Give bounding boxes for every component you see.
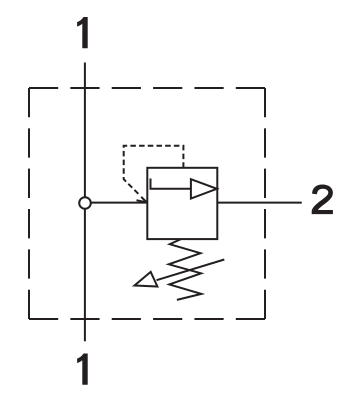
flow arrowhead triangle: [191, 179, 217, 198]
valve body U1: square envelope: [147, 168, 217, 239]
wire: node to valve body: [90, 202, 147, 204]
wire: valve to port 2: [217, 202, 301, 204]
wire: port 1 vertical line (bottom segment): [84, 208, 86, 341]
adjustment arrowhead triangle: [135, 272, 158, 287]
port label 2: [312, 185, 333, 215]
node: junction circle on port 1 line: [79, 197, 91, 209]
port label 1 (bottom): [77, 354, 88, 385]
enclosure dashed box: bottom edge: [29, 318, 265, 320]
pilot line (dashed) from valve top to inlet junction: [124, 146, 184, 195]
port label 1 (top): [77, 17, 88, 48]
wire: port 1 vertical line (top segment): [84, 63, 86, 198]
enclosure dashed box: left edge: [28, 88, 30, 319]
adjustment arrow shaft: [157, 260, 225, 281]
flow path arrow inside valve: [151, 179, 192, 189]
spring (zigzag): [169, 239, 202, 300]
enclosure dashed box: top edge: [29, 87, 265, 89]
pilot arrowhead: [137, 197, 147, 203]
enclosure dashed box: right edge: [264, 88, 266, 319]
